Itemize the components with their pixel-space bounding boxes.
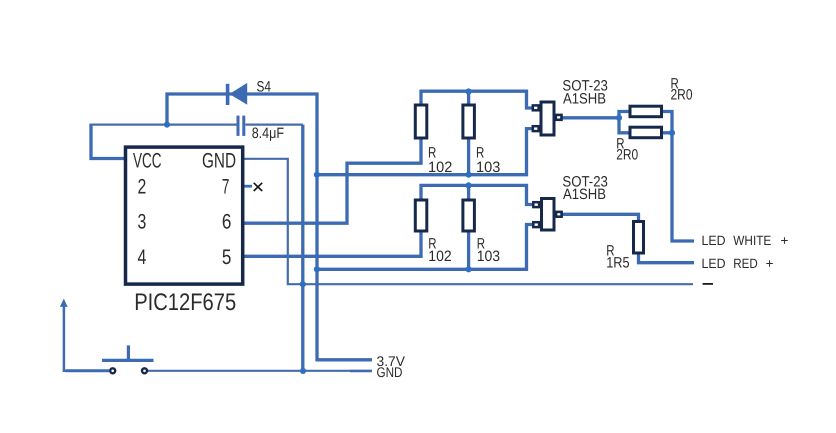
svg-text:GND: GND <box>377 364 403 380</box>
svg-text:6: 6 <box>222 211 232 234</box>
svg-text:VCC: VCC <box>133 149 162 172</box>
svg-text:103: 103 <box>477 248 500 265</box>
svg-text:PIC12F675: PIC12F675 <box>134 289 236 316</box>
svg-text:5: 5 <box>222 246 232 269</box>
svg-text:102: 102 <box>428 159 452 176</box>
svg-text:+: + <box>766 256 774 271</box>
svg-text:4: 4 <box>138 246 147 269</box>
svg-text:S4: S4 <box>257 79 272 96</box>
svg-text:2R0: 2R0 <box>616 146 638 163</box>
svg-text:LED: LED <box>702 233 726 248</box>
svg-text:RED: RED <box>733 256 758 271</box>
svg-text:102: 102 <box>428 248 451 265</box>
svg-text:1R5: 1R5 <box>606 255 629 272</box>
svg-text:3: 3 <box>138 211 147 234</box>
svg-text:+: + <box>781 233 789 248</box>
svg-text:A1SHB: A1SHB <box>563 90 606 107</box>
svg-text:GND: GND <box>202 149 236 172</box>
svg-text:2: 2 <box>138 176 147 199</box>
svg-text:LED: LED <box>702 256 726 271</box>
svg-text:2R0: 2R0 <box>671 87 693 104</box>
svg-text:8.4μF: 8.4μF <box>252 125 284 142</box>
svg-text:A1SHB: A1SHB <box>563 186 606 203</box>
svg-text:103: 103 <box>476 159 500 176</box>
svg-text:WHITE: WHITE <box>733 233 771 248</box>
svg-text:7: 7 <box>222 176 230 199</box>
